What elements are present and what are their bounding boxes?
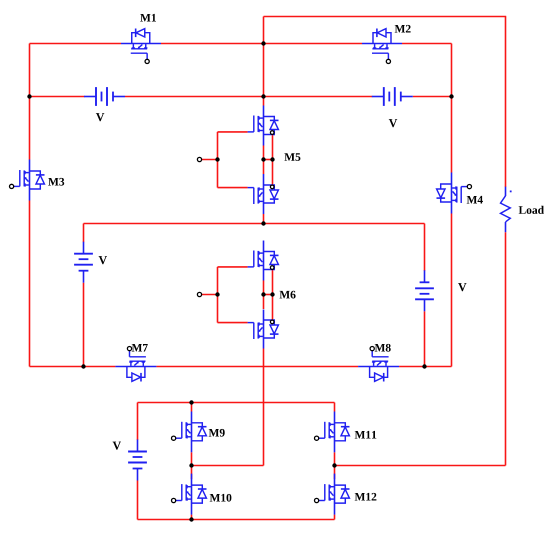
transistor M1 xyxy=(131,29,150,64)
wire load column upper xyxy=(505,17,507,188)
lead M4 drain-source xyxy=(451,173,453,214)
node M6 source left xyxy=(261,292,265,296)
node inner right rail battery row xyxy=(449,94,453,98)
wire M9-M10 midpoint to center column xyxy=(192,465,264,467)
wire M6 gate loop top xyxy=(218,266,248,268)
transistor M8 xyxy=(370,347,389,382)
lead M6 upper fet xyxy=(263,241,265,281)
wire M1-M2 row mid segment xyxy=(161,43,362,45)
wire M6 source junction link xyxy=(264,294,273,296)
wire center column lower xyxy=(263,349,265,466)
lead M1 drain-source xyxy=(121,43,161,45)
wire M11 leg upper xyxy=(334,403,336,412)
wire battery row mid segment xyxy=(125,96,372,98)
wire M11-M12 leg middle xyxy=(334,452,336,479)
transistor M4 xyxy=(437,184,472,203)
lead M5 lower fet xyxy=(263,174,265,214)
wire M6 gate loop vertical xyxy=(217,267,219,323)
wire M12 leg lower xyxy=(334,515,336,520)
resistor Load xyxy=(501,187,512,233)
lead M5 upper fet xyxy=(263,106,265,146)
transistor M9 xyxy=(172,422,207,441)
wire battery row left segment xyxy=(30,96,85,98)
label M12 xyxy=(355,493,377,501)
node M10 source H-bridge bottom xyxy=(189,517,193,521)
wire M10 leg lower xyxy=(191,515,193,520)
wire M6 gate loop bottom xyxy=(218,322,248,324)
label V top-right xyxy=(389,119,397,127)
wire M9-M10 leg middle xyxy=(191,452,193,479)
wire inner right rail lower xyxy=(451,214,453,367)
wire H-bridge bottom rail xyxy=(138,519,335,521)
transistor M5 lower half xyxy=(248,185,279,204)
wire inner right rail upper xyxy=(451,44,453,173)
wire left rail upper xyxy=(29,44,31,160)
wire M11-M12 midpoint to load column xyxy=(335,465,506,467)
lead M7 drain-source xyxy=(115,366,156,368)
wire M2 row right segment xyxy=(402,43,452,45)
transistor M6 lower half xyxy=(248,320,279,339)
node center column battery row xyxy=(261,94,265,98)
label M7 xyxy=(132,344,148,352)
wire right battery column upper xyxy=(424,224,426,271)
wire load column lower xyxy=(505,232,507,465)
label M8 xyxy=(375,344,391,352)
wire M8 row right segment xyxy=(399,366,451,368)
wire top rail xyxy=(264,16,507,18)
wire M5 gate terminal link xyxy=(200,159,218,161)
wire H-bridge left column upper xyxy=(137,403,139,441)
label V bottom xyxy=(113,442,121,450)
lead M12 drain-source xyxy=(334,474,336,515)
wire M7-M8 row mid segment xyxy=(156,366,358,368)
wire left battery column lower xyxy=(83,283,85,367)
label V right-middle xyxy=(458,283,466,291)
wire M9 leg upper xyxy=(191,403,193,412)
wire M1 row left segment xyxy=(30,43,122,45)
wire center column M5 inner upper xyxy=(263,146,265,175)
lead M2 drain-source xyxy=(362,43,402,45)
wire M5 gate loop top xyxy=(218,131,248,133)
label V left-middle xyxy=(99,256,107,264)
terminal M5 gate input xyxy=(197,157,201,161)
node center column M1 row xyxy=(261,41,265,45)
label M2 xyxy=(395,25,411,33)
lead M8 drain-source xyxy=(358,366,399,368)
node M11-M12 midpoint xyxy=(332,463,336,467)
transistor M3 xyxy=(10,170,45,189)
wire M6 bulk column xyxy=(272,269,274,322)
wire center column M5 to box rail xyxy=(263,214,265,224)
label M4 xyxy=(467,196,483,204)
label Load xyxy=(519,206,544,214)
lead M6 lower fet xyxy=(263,310,265,349)
wire M5 source junction link xyxy=(264,159,273,161)
lead M11 drain-source xyxy=(334,412,336,453)
voltage source V top-left xyxy=(84,87,125,106)
node left battery column M7 row xyxy=(81,364,85,368)
wire right battery column lower xyxy=(424,311,426,366)
voltage source V right-middle xyxy=(415,270,434,311)
transistor M5 upper half xyxy=(248,116,279,135)
label M11 xyxy=(355,431,377,439)
node M6 source right xyxy=(270,292,274,296)
label M1 xyxy=(140,14,156,22)
node M6 gate loop xyxy=(215,292,219,296)
voltage source V left-middle xyxy=(74,242,93,283)
wire H-bridge left column lower xyxy=(137,481,139,520)
label M3 xyxy=(48,178,64,186)
node M9-M10 midpoint xyxy=(189,463,193,467)
transistor M10 xyxy=(172,484,207,503)
node M5 source right xyxy=(270,157,274,161)
node left rail battery row xyxy=(27,94,31,98)
wire battery row right segment xyxy=(413,96,452,98)
lead M9 drain-source xyxy=(191,412,193,453)
transistor M11 xyxy=(315,422,350,441)
node M9 drain H-bridge top xyxy=(189,400,193,404)
wire M5 gate loop bottom xyxy=(218,187,248,189)
node M5 source left xyxy=(261,157,265,161)
label M9 xyxy=(209,429,225,437)
node center column middle box rail xyxy=(261,221,265,225)
wire center column top xyxy=(263,17,265,106)
wire H-bridge top rail xyxy=(138,402,335,404)
label M5 xyxy=(284,153,300,161)
node right battery column M8 row xyxy=(422,364,426,368)
wire center column M6 inner xyxy=(263,281,265,310)
lead M10 drain-source xyxy=(191,474,193,515)
transistor M6 upper half xyxy=(248,251,279,270)
label M10 xyxy=(210,494,232,502)
wire left battery column upper xyxy=(83,224,85,243)
node M5 gate loop xyxy=(215,157,219,161)
wire middle box top rail xyxy=(84,223,425,225)
transistor M12 xyxy=(315,484,350,503)
wire M5 bulk column xyxy=(272,134,274,187)
transistor M2 xyxy=(372,29,391,64)
transistor M7 xyxy=(127,347,146,382)
wire M5 gate loop vertical xyxy=(217,132,219,188)
label V top-left xyxy=(96,113,104,121)
terminal M6 gate input xyxy=(197,292,201,296)
label M6 xyxy=(280,291,296,299)
voltage source V top-right xyxy=(372,87,413,106)
lead M3 drain-source xyxy=(29,160,31,201)
wire left rail lower xyxy=(29,201,31,367)
voltage source V bottom xyxy=(128,440,147,481)
wire M7 row left segment xyxy=(30,366,116,368)
wire M6 gate terminal link xyxy=(200,294,218,296)
